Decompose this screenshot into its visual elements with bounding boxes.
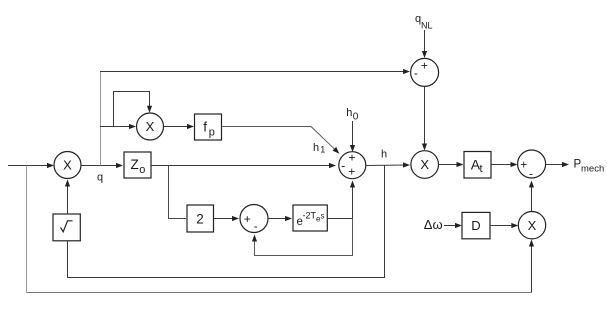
svg-text:q: q	[97, 171, 103, 183]
wire: S4 to e-box	[268, 218, 287, 220]
svg-text:p: p	[209, 126, 215, 138]
wire: X4 to At	[439, 164, 459, 166]
wire: S2 output down into X4 top	[424, 86, 426, 145]
wire: e-box output junction	[327, 218, 352, 220]
svg-text:1: 1	[320, 145, 325, 155]
wire: 2-box to S4	[214, 218, 235, 220]
wire: X1 output to Zo	[81, 165, 117, 167]
svg-text:+: +	[520, 157, 527, 171]
wire: S3 output to Pmech	[546, 164, 564, 166]
wire: riser into S1 bottom	[352, 186, 354, 219]
box sqrt	[53, 214, 80, 241]
svg-text:-: -	[414, 66, 418, 80]
wire: bottom long run to X5	[27, 292, 532, 294]
box 2	[187, 205, 214, 232]
svg-text:X: X	[63, 158, 72, 173]
wire: drop from Zo line to 2-box	[169, 166, 187, 219]
svg-text:h: h	[381, 148, 387, 160]
svg-text:+: +	[244, 212, 251, 226]
summer S2	[411, 58, 439, 86]
wire: feedback down-left to S4 bottom	[255, 219, 353, 256]
wire: At to S3	[491, 164, 513, 166]
svg-text:-2T: -2T	[303, 211, 317, 221]
svg-text:+: +	[348, 165, 355, 179]
box e^-2Tes	[293, 205, 327, 231]
svg-text:o: o	[139, 164, 145, 176]
summer S1	[339, 152, 366, 179]
wire: fp output with diagonal into S1	[222, 127, 336, 151]
box Zo	[124, 152, 151, 178]
wire: Zo output to S1	[151, 165, 330, 167]
svg-text:t: t	[480, 163, 483, 175]
wire: X5 output up into S3 bottom	[531, 186, 533, 212]
wire: X3 to fp	[164, 126, 190, 128]
multiplier X3	[137, 113, 164, 140]
svg-text:mech: mech	[581, 164, 604, 175]
svg-text:X: X	[420, 157, 429, 172]
svg-text:-: -	[529, 166, 533, 180]
wire: riser into X5 bottom	[531, 242, 533, 293]
wire: X3 input from riser	[100, 126, 131, 128]
svg-text:X: X	[528, 218, 537, 233]
svg-text:+: +	[348, 151, 355, 165]
svg-text:2: 2	[196, 212, 204, 227]
svg-text:-: -	[341, 159, 345, 173]
svg-text:X: X	[146, 119, 155, 134]
svg-text:s: s	[321, 212, 325, 221]
summer S4	[240, 205, 268, 233]
svg-text:0: 0	[353, 112, 359, 123]
svg-text:-: -	[254, 219, 258, 233]
box At	[464, 152, 491, 179]
wire: delta-omega arrow into D	[444, 225, 457, 227]
svg-text:D: D	[471, 218, 480, 233]
wire: top line to S2	[100, 71, 405, 73]
multiplier X1	[54, 152, 81, 179]
wire: left branch down from input (x=27)	[26, 166, 28, 293]
multiplier X4	[411, 151, 439, 179]
multiplier X5	[518, 212, 545, 239]
svg-text:NL: NL	[421, 21, 433, 31]
svg-text:+: +	[421, 59, 428, 73]
wire: squaring loop around X3	[114, 92, 150, 127]
wire: main input line into X1	[8, 165, 48, 167]
svg-text:f: f	[203, 120, 207, 135]
wire: D to X5	[490, 225, 513, 227]
svg-text:h: h	[313, 142, 319, 154]
box D	[462, 212, 490, 238]
wire: sqrt output up into X1 bottom	[67, 185, 69, 215]
svg-text:Δω: Δω	[424, 217, 443, 232]
wire: riser x=100 up to top line	[100, 72, 102, 166]
summer S3	[518, 150, 546, 178]
box fp	[195, 114, 222, 140]
svg-text:h: h	[346, 107, 352, 119]
svg-text:Z: Z	[131, 157, 139, 172]
wire: S1 output h to X4	[366, 164, 405, 167]
wire: h branch down and left (feedback to sqrt)	[68, 166, 385, 278]
